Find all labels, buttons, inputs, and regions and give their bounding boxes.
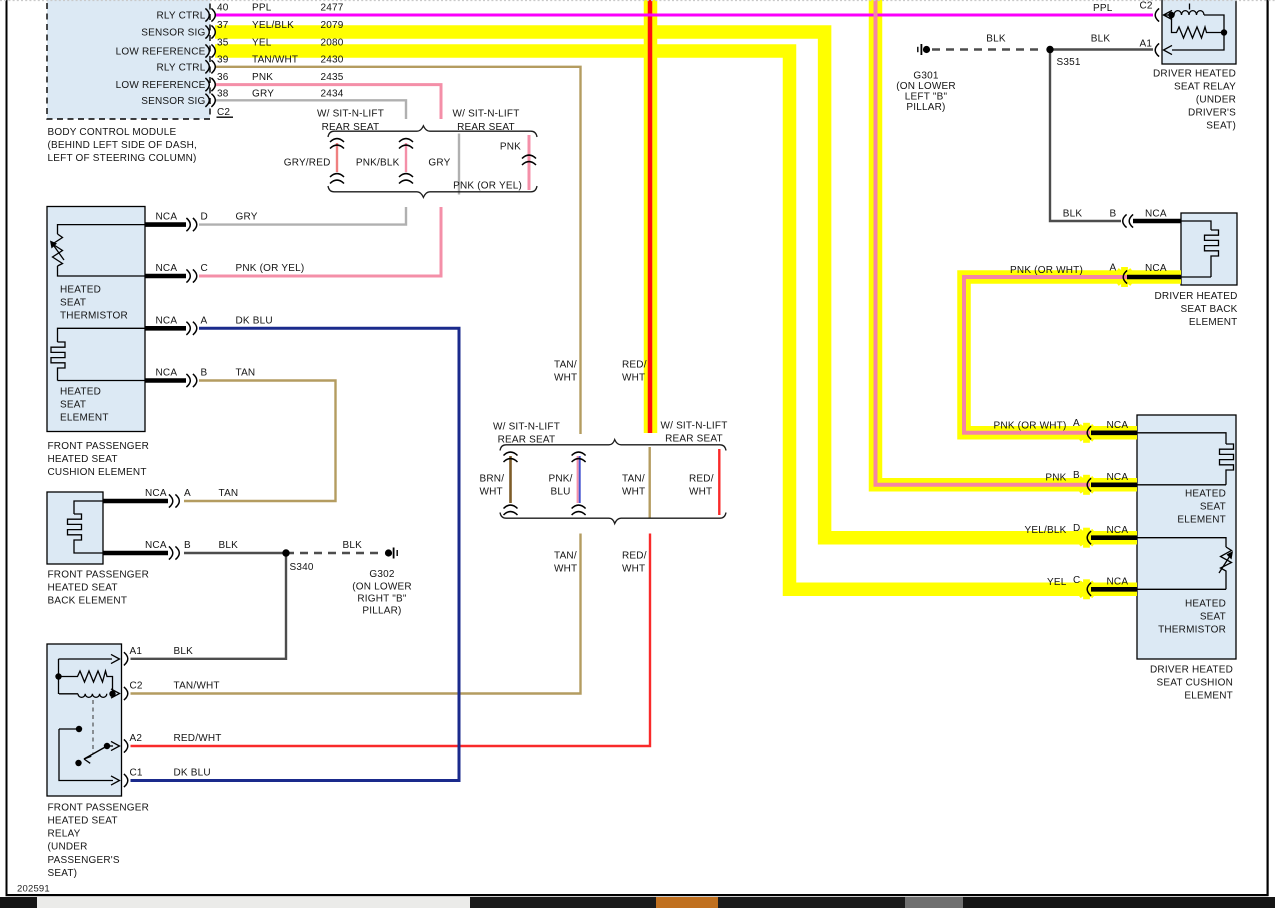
svg-text:S351: S351 <box>1057 57 1081 68</box>
svg-text:2080: 2080 <box>321 38 344 49</box>
svg-text:YEL: YEL <box>252 38 272 49</box>
svg-text:PNK: PNK <box>1045 472 1066 483</box>
svg-text:RELAY: RELAY <box>48 829 81 840</box>
svg-text:TAN: TAN <box>219 488 239 499</box>
svg-text:PNK: PNK <box>500 142 521 153</box>
svg-text:SEAT RELAY: SEAT RELAY <box>1174 82 1236 93</box>
svg-text:DRIVER HEATED: DRIVER HEATED <box>1150 665 1233 676</box>
svg-text:35: 35 <box>217 38 229 49</box>
svg-text:LEFT OF STEERING COLUMN): LEFT OF STEERING COLUMN) <box>48 153 197 164</box>
svg-text:RED/: RED/ <box>689 473 714 484</box>
svg-text:A: A <box>184 488 191 499</box>
svg-text:BLK: BLK <box>174 646 194 657</box>
svg-text:REAR SEAT: REAR SEAT <box>322 122 380 133</box>
svg-text:PNK (OR WHT): PNK (OR WHT) <box>994 420 1067 431</box>
svg-text:C1: C1 <box>130 768 143 779</box>
svg-text:2477: 2477 <box>321 3 344 14</box>
svg-text:G302: G302 <box>369 569 395 580</box>
svg-text:PPL: PPL <box>252 3 272 14</box>
svg-text:NCA: NCA <box>156 263 178 274</box>
svg-text:DRIVER'S: DRIVER'S <box>1188 108 1236 119</box>
svg-text:PNK (OR YEL): PNK (OR YEL) <box>453 181 522 192</box>
svg-text:DRIVER HEATED: DRIVER HEATED <box>1155 291 1238 302</box>
svg-text:B: B <box>201 368 208 379</box>
svg-text:A: A <box>1110 263 1117 274</box>
svg-text:ELEMENT: ELEMENT <box>1177 515 1226 526</box>
svg-text:WHT: WHT <box>622 373 645 384</box>
svg-text:SEAT: SEAT <box>60 400 86 411</box>
svg-text:(UNDER: (UNDER <box>48 842 88 853</box>
svg-text:W/ SIT-N-LIFT: W/ SIT-N-LIFT <box>660 421 727 432</box>
svg-text:NCA: NCA <box>1107 420 1129 431</box>
svg-text:TAN/WHT: TAN/WHT <box>252 55 298 66</box>
svg-text:RED/WHT: RED/WHT <box>174 733 222 744</box>
svg-text:NCA: NCA <box>1107 472 1129 483</box>
svg-text:PILLAR): PILLAR) <box>906 102 945 113</box>
svg-text:REAR SEAT: REAR SEAT <box>665 434 723 445</box>
svg-text:D: D <box>201 212 208 223</box>
svg-text:BODY CONTROL MODULE: BODY CONTROL MODULE <box>48 127 177 138</box>
svg-text:W/ SIT-N-LIFT: W/ SIT-N-LIFT <box>317 109 384 120</box>
svg-text:REAR SEAT: REAR SEAT <box>498 435 556 446</box>
svg-text:NCA: NCA <box>1145 209 1167 220</box>
svg-text:ELEMENT: ELEMENT <box>1189 317 1238 328</box>
svg-text:W/ SIT-N-LIFT: W/ SIT-N-LIFT <box>452 109 519 120</box>
svg-text:SENSOR SIG: SENSOR SIG <box>141 96 205 107</box>
svg-text:RED/: RED/ <box>622 551 647 562</box>
svg-text:YEL: YEL <box>1047 577 1067 588</box>
svg-text:TAN/: TAN/ <box>622 473 645 484</box>
svg-text:SEAT: SEAT <box>1200 612 1226 623</box>
svg-text:HEATED: HEATED <box>60 285 101 296</box>
svg-text:LOW REFERENCE: LOW REFERENCE <box>116 80 206 91</box>
svg-text:FRONT PASSENGER: FRONT PASSENGER <box>48 802 150 813</box>
svg-text:WHT: WHT <box>554 564 577 575</box>
svg-text:WHT: WHT <box>622 486 645 497</box>
svg-text:HEATED SEAT: HEATED SEAT <box>48 454 118 465</box>
svg-text:(ON LOWER: (ON LOWER <box>896 81 956 92</box>
svg-text:NCA: NCA <box>1107 577 1129 588</box>
svg-text:SEAT): SEAT) <box>48 868 78 879</box>
svg-text:THERMISTOR: THERMISTOR <box>1158 625 1226 636</box>
svg-text:C2: C2 <box>217 107 230 118</box>
svg-text:WHT: WHT <box>689 486 712 497</box>
svg-text:C: C <box>201 263 208 274</box>
svg-text:36: 36 <box>217 72 229 83</box>
svg-text:GRY: GRY <box>236 212 258 223</box>
svg-text:NCA: NCA <box>1107 525 1129 536</box>
svg-text:37: 37 <box>217 20 229 31</box>
svg-text:S340: S340 <box>290 562 314 573</box>
svg-text:A2: A2 <box>130 733 143 744</box>
svg-text:BLK: BLK <box>1063 209 1083 220</box>
svg-text:BLU: BLU <box>551 486 571 497</box>
svg-text:PNK/: PNK/ <box>549 473 573 484</box>
svg-text:A: A <box>1073 418 1080 429</box>
svg-text:THERMISTOR: THERMISTOR <box>60 311 128 322</box>
svg-text:DRIVER HEATED: DRIVER HEATED <box>1153 69 1236 80</box>
svg-text:SENSOR SIG: SENSOR SIG <box>141 28 205 39</box>
svg-text:HEATED: HEATED <box>1185 489 1226 500</box>
svg-text:PNK/BLK: PNK/BLK <box>356 158 400 169</box>
svg-text:A1: A1 <box>1140 38 1153 49</box>
svg-text:SEAT: SEAT <box>60 298 86 309</box>
svg-text:PNK: PNK <box>252 72 273 83</box>
svg-text:RLY CTRL: RLY CTRL <box>156 11 205 22</box>
svg-text:NCA: NCA <box>156 212 178 223</box>
svg-text:D: D <box>1073 523 1080 534</box>
svg-text:SEAT): SEAT) <box>1206 121 1236 132</box>
svg-text:RED/: RED/ <box>622 360 647 371</box>
svg-text:W/ SIT-N-LIFT: W/ SIT-N-LIFT <box>493 422 560 433</box>
svg-text:FRONT PASSENGER: FRONT PASSENGER <box>48 569 150 580</box>
svg-text:A1: A1 <box>130 646 143 657</box>
svg-text:DK BLU: DK BLU <box>174 768 211 779</box>
svg-text:B: B <box>1110 209 1117 220</box>
svg-text:NCA: NCA <box>156 315 178 326</box>
svg-text:HEATED SEAT: HEATED SEAT <box>48 582 118 593</box>
svg-text:39: 39 <box>217 55 229 66</box>
svg-text:PNK (OR YEL): PNK (OR YEL) <box>236 263 305 274</box>
svg-text:LOW REFERENCE: LOW REFERENCE <box>116 47 206 58</box>
svg-text:NCA: NCA <box>145 540 167 551</box>
svg-text:LEFT "B": LEFT "B" <box>905 92 948 103</box>
svg-text:FRONT PASSENGER: FRONT PASSENGER <box>48 441 150 452</box>
svg-text:HEATED: HEATED <box>60 387 101 398</box>
svg-text:YEL/BLK: YEL/BLK <box>252 20 294 31</box>
svg-text:202591: 202591 <box>17 884 50 895</box>
svg-text:DK BLU: DK BLU <box>236 315 273 326</box>
svg-text:B: B <box>184 540 191 551</box>
svg-text:REAR SEAT: REAR SEAT <box>457 122 515 133</box>
svg-text:TAN/WHT: TAN/WHT <box>174 681 220 692</box>
svg-text:BACK ELEMENT: BACK ELEMENT <box>48 596 128 607</box>
svg-text:GRY: GRY <box>428 158 450 169</box>
svg-text:38: 38 <box>217 88 229 99</box>
svg-text:C2: C2 <box>130 681 143 692</box>
svg-text:BLK: BLK <box>343 540 363 551</box>
svg-text:(ON LOWER: (ON LOWER <box>352 582 412 593</box>
svg-text:2434: 2434 <box>321 88 344 99</box>
svg-text:GRY/RED: GRY/RED <box>284 158 331 169</box>
svg-text:HEATED: HEATED <box>1185 599 1226 610</box>
svg-text:(BEHIND LEFT SIDE OF DASH,: (BEHIND LEFT SIDE OF DASH, <box>48 140 197 151</box>
svg-text:(UNDER: (UNDER <box>1196 95 1236 106</box>
svg-text:PASSENGER'S: PASSENGER'S <box>48 855 120 866</box>
svg-text:ELEMENT: ELEMENT <box>60 413 109 424</box>
svg-text:BLK: BLK <box>219 540 239 551</box>
svg-text:CUSHION ELEMENT: CUSHION ELEMENT <box>48 467 147 478</box>
svg-text:NCA: NCA <box>156 368 178 379</box>
svg-text:A: A <box>201 315 208 326</box>
svg-text:BRN/: BRN/ <box>480 473 505 484</box>
svg-text:WHT: WHT <box>622 564 645 575</box>
svg-text:TAN/: TAN/ <box>554 360 577 371</box>
svg-text:TAN/: TAN/ <box>554 551 577 562</box>
svg-text:C2: C2 <box>1140 1 1153 12</box>
svg-text:SEAT CUSHION: SEAT CUSHION <box>1157 678 1234 689</box>
svg-text:SEAT BACK: SEAT BACK <box>1180 304 1237 315</box>
svg-text:HEATED SEAT: HEATED SEAT <box>48 816 118 827</box>
svg-text:ELEMENT: ELEMENT <box>1184 691 1233 702</box>
svg-text:NCA: NCA <box>1145 263 1167 274</box>
svg-text:2430: 2430 <box>321 55 344 66</box>
svg-text:NCA: NCA <box>145 488 167 499</box>
svg-text:WHT: WHT <box>554 373 577 384</box>
svg-text:G301: G301 <box>913 71 939 82</box>
svg-text:PILLAR): PILLAR) <box>362 606 401 617</box>
svg-text:2079: 2079 <box>321 20 344 31</box>
svg-text:2435: 2435 <box>321 72 344 83</box>
svg-text:B: B <box>1073 470 1080 481</box>
svg-text:PPL: PPL <box>1093 3 1113 14</box>
svg-text:40: 40 <box>217 3 229 14</box>
svg-text:C: C <box>1073 575 1080 586</box>
svg-text:WHT: WHT <box>480 486 503 497</box>
svg-text:PNK (OR WHT): PNK (OR WHT) <box>1010 265 1083 276</box>
svg-text:YEL/BLK: YEL/BLK <box>1025 525 1067 536</box>
svg-text:GRY: GRY <box>252 88 274 99</box>
svg-text:BLK: BLK <box>1091 34 1111 45</box>
svg-text:RLY CTRL: RLY CTRL <box>156 62 205 73</box>
svg-text:RIGHT "B": RIGHT "B" <box>357 594 407 605</box>
svg-text:SEAT: SEAT <box>1200 502 1226 513</box>
svg-text:TAN: TAN <box>236 368 256 379</box>
svg-text:BLK: BLK <box>986 34 1006 45</box>
